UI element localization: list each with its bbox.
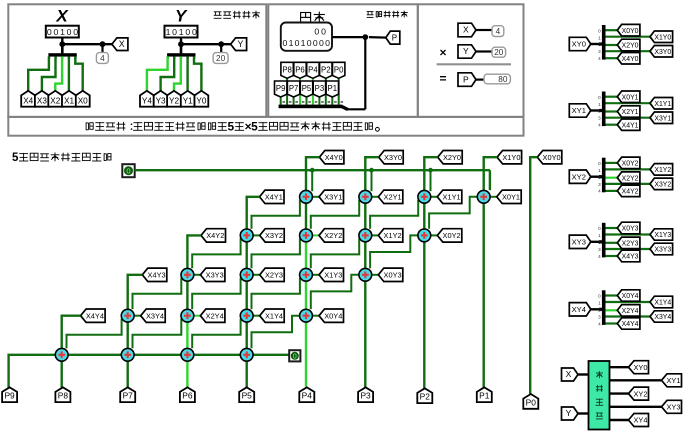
tunnel P1 bbox=[326, 81, 338, 97]
wire bbox=[253, 274, 260, 276]
wire bbox=[431, 234, 438, 236]
wire bbox=[186, 56, 188, 91]
svg-text:X0Y4: X0Y4 bbox=[324, 311, 342, 320]
wire bbox=[174, 56, 181, 91]
wire bbox=[610, 379, 662, 381]
tunnel P2 bbox=[320, 62, 332, 78]
svg-text:X2Y4: X2Y4 bbox=[206, 311, 224, 320]
wire bbox=[311, 200, 359, 229]
tunnel X (result panel) bbox=[458, 23, 476, 37]
wire bbox=[370, 200, 418, 229]
svg-text:P1: P1 bbox=[479, 391, 490, 401]
tunnel X3Y4 bbox=[141, 309, 166, 322]
tunnel X2Y1 bbox=[617, 106, 640, 117]
svg-text:XY3: XY3 bbox=[667, 403, 681, 412]
tunnel X3Y3 bbox=[650, 243, 673, 255]
tunnel X4Y0 bbox=[319, 151, 344, 164]
adder final-row cell (1-bit full adder) bbox=[55, 348, 68, 361]
svg-text:0: 0 bbox=[321, 27, 326, 37]
svg-text:0: 0 bbox=[73, 27, 78, 37]
wire bbox=[253, 354, 289, 356]
tunnel X1 bbox=[62, 91, 76, 107]
svg-text:0: 0 bbox=[313, 38, 318, 48]
wire bbox=[483, 203, 485, 387]
label 功能说明 (function description text) bbox=[86, 120, 379, 134]
svg-text:P0: P0 bbox=[334, 65, 344, 74]
tunnel X3Y0 bbox=[379, 151, 404, 164]
tunnel P (result panel) bbox=[458, 73, 476, 87]
svg-text:20: 20 bbox=[216, 54, 226, 63]
svg-text:X0Y1: X0Y1 bbox=[622, 94, 639, 101]
probe 4 (result X) bbox=[492, 26, 504, 37]
svg-text:4: 4 bbox=[100, 54, 105, 63]
tunnel X2 bbox=[48, 91, 62, 107]
splitter (XY1 5-bit fanout) bbox=[598, 92, 605, 128]
tunnel X1Y1 bbox=[437, 190, 462, 203]
wire bbox=[591, 109, 600, 111]
svg-text:X4Y4: X4Y4 bbox=[622, 321, 639, 328]
wire bbox=[245, 281, 247, 309]
tunnel X1Y3 bbox=[319, 268, 344, 281]
wire bbox=[606, 44, 618, 46]
svg-text:X: X bbox=[566, 369, 572, 379]
adder X2Y1 cell (1-bit full adder) bbox=[359, 190, 372, 203]
svg-text:X3Y1: X3Y1 bbox=[654, 115, 671, 122]
wire bbox=[305, 203, 307, 229]
wire bbox=[133, 278, 182, 309]
wire bbox=[181, 43, 231, 45]
panel product area frame bbox=[268, 4, 418, 117]
wire bbox=[429, 197, 477, 229]
wire bbox=[220, 44, 222, 52]
tunnel P (product out) bbox=[386, 31, 400, 44]
wire bbox=[126, 322, 128, 348]
svg-text:X1Y3: X1Y3 bbox=[654, 232, 671, 239]
wire bbox=[186, 281, 188, 309]
wire bbox=[591, 308, 600, 310]
svg-text:1: 1 bbox=[166, 27, 171, 37]
svg-text:X1Y2: X1Y2 bbox=[654, 167, 671, 174]
wire bbox=[606, 168, 651, 170]
svg-text:X2: X2 bbox=[50, 96, 60, 105]
svg-text:X4Y3: X4Y3 bbox=[148, 271, 166, 280]
constant 0 (carry-in top) bbox=[122, 164, 134, 177]
wire bbox=[245, 322, 247, 348]
svg-text:5: 5 bbox=[228, 120, 235, 134]
wire bbox=[75, 56, 82, 91]
wire bbox=[610, 366, 629, 368]
subcircuit 与门阵列 (AND-gate array) bbox=[589, 361, 610, 430]
tunnel XY2 (module input) bbox=[569, 170, 591, 183]
svg-text:X4Y1: X4Y1 bbox=[622, 122, 639, 129]
rule (fraction line) bbox=[437, 63, 511, 65]
wire bbox=[606, 110, 618, 112]
wire bbox=[606, 36, 651, 38]
tunnel X2Y0 bbox=[617, 39, 640, 51]
svg-text:Y3: Y3 bbox=[156, 96, 166, 105]
tunnel X1Y2 bbox=[650, 164, 673, 176]
svg-text:1: 1 bbox=[289, 38, 294, 48]
tunnel P6 bbox=[294, 62, 306, 78]
node (Y probe tap) bbox=[218, 41, 224, 47]
svg-text:0: 0 bbox=[319, 38, 324, 48]
svg-text:XY3: XY3 bbox=[572, 238, 586, 247]
splitter (XY4 5-bit fanout) bbox=[598, 290, 605, 326]
tunnel X3Y1 bbox=[650, 112, 673, 124]
svg-text:P6: P6 bbox=[295, 65, 305, 74]
tunnel XY3 (module input) bbox=[569, 235, 591, 248]
wire bbox=[62, 43, 112, 45]
panel input-pin area frame bbox=[8, 4, 266, 117]
tunnel Y (result panel) bbox=[458, 45, 476, 58]
wire bbox=[128, 275, 143, 309]
wire bbox=[348, 108, 366, 110]
adder X1Y1 cell (1-bit full adder) bbox=[418, 190, 431, 203]
tunnel XY1 (module input) bbox=[569, 104, 591, 117]
tunnel X0Y2 bbox=[437, 229, 462, 242]
wire bbox=[489, 170, 491, 190]
wire bbox=[606, 242, 618, 244]
tunnel X1Y3 bbox=[650, 229, 673, 240]
svg-text:0: 0 bbox=[126, 166, 130, 175]
tunnel X (AND array input) bbox=[562, 368, 579, 381]
wire bbox=[591, 43, 600, 45]
pin P4 (output) bbox=[299, 387, 314, 402]
wire bbox=[61, 361, 63, 387]
svg-text:XY0: XY0 bbox=[634, 363, 648, 372]
svg-text:2: 2 bbox=[598, 109, 601, 114]
wire bbox=[490, 196, 497, 198]
adder final-row cell (1-bit full adder) bbox=[181, 348, 194, 361]
tunnel X2Y3 bbox=[617, 237, 640, 249]
svg-text:X: X bbox=[463, 25, 469, 35]
svg-text:X: X bbox=[119, 39, 125, 49]
wire bbox=[101, 44, 103, 52]
svg-text:Y0: Y0 bbox=[196, 96, 206, 105]
svg-text:X0Y2: X0Y2 bbox=[443, 231, 461, 240]
svg-text:P9: P9 bbox=[4, 391, 15, 401]
wire bbox=[192, 278, 240, 309]
adder X3Y2 cell (1-bit full adder) bbox=[240, 229, 253, 242]
tunnel P0 bbox=[333, 62, 345, 78]
output display 乘积 (value 0010100000) bbox=[281, 23, 332, 51]
wire bbox=[484, 157, 497, 190]
adder X2Y4 cell (1-bit full adder) bbox=[181, 309, 194, 322]
pin P3 (output) bbox=[358, 387, 373, 402]
svg-text:X1Y1: X1Y1 bbox=[443, 193, 461, 202]
wire bbox=[9, 355, 56, 388]
pin P7 (output) bbox=[120, 387, 135, 402]
tunnel P7 bbox=[287, 81, 299, 97]
splitter (X, 5-bit fanout) bbox=[48, 44, 77, 58]
svg-text:4: 4 bbox=[598, 56, 601, 61]
svg-text:X1Y0: X1Y0 bbox=[502, 153, 520, 162]
tunnel X3Y2 bbox=[650, 178, 673, 190]
tunnel X3Y1 bbox=[319, 190, 344, 203]
wire bbox=[28, 56, 49, 91]
tunnel X0Y0 bbox=[617, 24, 640, 36]
adder X0Y4 cell (1-bit full adder) bbox=[300, 309, 313, 322]
tunnel X1Y0 bbox=[497, 151, 521, 164]
wire bbox=[312, 234, 319, 236]
svg-text:X4Y2: X4Y2 bbox=[206, 231, 224, 240]
wire bbox=[68, 354, 121, 356]
tunnel Y (AND array input) bbox=[562, 407, 579, 420]
svg-text:1: 1 bbox=[598, 102, 601, 107]
svg-text:4: 4 bbox=[598, 254, 601, 259]
svg-text:P7: P7 bbox=[123, 391, 134, 401]
wire bbox=[606, 315, 651, 317]
wire bbox=[306, 157, 319, 190]
wire bbox=[372, 274, 379, 276]
svg-text:P4: P4 bbox=[308, 65, 318, 74]
svg-text:X1Y2: X1Y2 bbox=[384, 231, 402, 240]
tunnel X2Y1 bbox=[378, 190, 403, 203]
svg-text:P8: P8 bbox=[282, 65, 292, 74]
wire bbox=[332, 36, 365, 38]
tunnel X0Y3 bbox=[617, 222, 640, 234]
tunnel XY1 (AND array output) bbox=[662, 374, 682, 387]
wire bbox=[311, 275, 359, 309]
tunnel X4Y1 bbox=[617, 119, 640, 130]
svg-text:X3Y3: X3Y3 bbox=[654, 247, 671, 254]
svg-text:Y: Y bbox=[463, 46, 469, 56]
tunnel P5 bbox=[300, 81, 312, 97]
tunnel X4Y4 bbox=[81, 309, 106, 322]
wire bbox=[606, 248, 651, 250]
tunnel X0Y4 bbox=[319, 309, 344, 322]
svg-text:4: 4 bbox=[598, 321, 601, 326]
wire bbox=[430, 170, 432, 191]
wire bbox=[606, 255, 618, 257]
wire bbox=[364, 37, 366, 109]
wire bbox=[606, 294, 618, 296]
svg-text:X0Y0: X0Y0 bbox=[543, 153, 561, 162]
svg-text:X3Y2: X3Y2 bbox=[265, 231, 283, 240]
wire bbox=[591, 241, 600, 243]
svg-text:X2Y2: X2Y2 bbox=[324, 231, 342, 240]
pin P6 (output) bbox=[180, 387, 195, 402]
tunnel XY4 (AND array output) bbox=[629, 414, 649, 427]
svg-text:P2: P2 bbox=[420, 392, 431, 402]
tunnel X1Y4 bbox=[260, 309, 285, 322]
pin P1 (output) bbox=[477, 387, 492, 402]
svg-text:P: P bbox=[392, 33, 397, 42]
adder X2Y2 cell (1-bit full adder) bbox=[300, 229, 313, 242]
wire bbox=[431, 196, 438, 198]
svg-text:0: 0 bbox=[598, 161, 601, 166]
wire bbox=[591, 175, 600, 177]
wire bbox=[606, 301, 651, 303]
svg-text:X0Y2: X0Y2 bbox=[622, 161, 639, 168]
wire bbox=[194, 315, 201, 317]
tunnel X1Y1 bbox=[650, 98, 673, 110]
tunnel P9 bbox=[275, 81, 287, 97]
svg-text:X3Y1: X3Y1 bbox=[324, 193, 342, 202]
svg-text:20: 20 bbox=[494, 48, 504, 57]
svg-text:0: 0 bbox=[192, 27, 197, 37]
adder final-row cell (1-bit full adder) bbox=[121, 348, 134, 361]
wire bbox=[364, 203, 366, 229]
wire bbox=[372, 234, 379, 236]
svg-text:5: 5 bbox=[12, 152, 19, 164]
wire bbox=[192, 319, 240, 349]
wire bbox=[578, 373, 589, 375]
tunnel X4Y3 bbox=[617, 250, 640, 262]
svg-text:2: 2 bbox=[598, 308, 601, 313]
svg-text:Y: Y bbox=[237, 39, 243, 49]
svg-text:P7: P7 bbox=[289, 84, 299, 93]
wire bbox=[606, 162, 618, 164]
wire bbox=[530, 157, 537, 394]
wire bbox=[578, 412, 589, 414]
wire (zero bus) bbox=[135, 169, 490, 171]
splitter (XY3 5-bit fanout) bbox=[598, 223, 605, 259]
wire bbox=[606, 57, 618, 59]
wire bbox=[312, 196, 319, 198]
adder X1Y2 cell (1-bit full adder) bbox=[359, 229, 372, 242]
svg-text:X4Y0: X4Y0 bbox=[622, 56, 639, 63]
pin P2 (output) bbox=[417, 388, 432, 403]
svg-text:0: 0 bbox=[293, 353, 297, 360]
svg-text:P3: P3 bbox=[315, 84, 325, 93]
wire bbox=[147, 56, 168, 91]
wire bbox=[194, 354, 240, 356]
svg-text:Y1: Y1 bbox=[183, 96, 193, 105]
wire bbox=[253, 315, 260, 317]
tunnel Y3 bbox=[154, 91, 168, 107]
wire bbox=[161, 56, 175, 91]
svg-text:0: 0 bbox=[67, 27, 72, 37]
tunnel X4 bbox=[21, 91, 35, 107]
wire bbox=[61, 38, 63, 45]
svg-text:0: 0 bbox=[47, 27, 52, 37]
pin P9 (output) bbox=[2, 387, 17, 402]
node (X bus junction) bbox=[59, 41, 65, 47]
tunnel X2Y4 bbox=[200, 309, 225, 322]
pin P0 (output) bbox=[523, 394, 538, 409]
svg-text:XY2: XY2 bbox=[634, 389, 648, 398]
tunnel X4Y0 bbox=[617, 53, 640, 65]
svg-text:X4Y2: X4Y2 bbox=[622, 189, 639, 196]
wire bbox=[245, 361, 247, 387]
wire bbox=[245, 242, 247, 268]
tunnel X2Y2 bbox=[319, 229, 344, 242]
svg-text:XY2: XY2 bbox=[572, 172, 586, 181]
svg-text:80: 80 bbox=[498, 75, 508, 84]
svg-text:Y: Y bbox=[175, 7, 188, 26]
svg-text:0: 0 bbox=[172, 27, 177, 37]
tunnel X4Y3 bbox=[142, 268, 167, 281]
probe 4 (X value) bbox=[96, 53, 108, 64]
adder X1Y4 cell (1-bit full adder) bbox=[240, 309, 253, 322]
svg-text:0: 0 bbox=[325, 38, 330, 48]
svg-text:P: P bbox=[463, 74, 469, 84]
svg-text:X2Y3: X2Y3 bbox=[265, 271, 283, 280]
svg-text:P0: P0 bbox=[526, 397, 537, 407]
svg-text:3: 3 bbox=[598, 182, 601, 187]
tunnel XY2 (AND array output) bbox=[629, 387, 649, 400]
wire bbox=[134, 354, 181, 356]
tunnel P3 bbox=[313, 81, 325, 97]
svg-text:0: 0 bbox=[598, 95, 601, 100]
tunnel Y4 bbox=[140, 91, 154, 107]
svg-text:X3Y0: X3Y0 bbox=[384, 153, 402, 162]
node (P junction) bbox=[362, 34, 368, 40]
svg-text:4: 4 bbox=[598, 123, 601, 128]
svg-text:4: 4 bbox=[598, 189, 601, 194]
probe 20 (Y value) bbox=[213, 53, 228, 64]
wire bbox=[370, 235, 418, 268]
wire bbox=[369, 36, 386, 39]
wire bbox=[67, 319, 122, 349]
tunnel X1Y4 bbox=[650, 296, 673, 308]
adder X0Y2 cell (1-bit full adder) bbox=[418, 229, 431, 242]
tunnel X4Y2 bbox=[201, 229, 226, 242]
wire bbox=[187, 235, 201, 268]
svg-text:3: 3 bbox=[598, 314, 601, 319]
wire bbox=[305, 322, 307, 386]
tunnel P8 bbox=[281, 62, 293, 78]
svg-text:X4Y0: X4Y0 bbox=[325, 153, 343, 162]
svg-text:2: 2 bbox=[598, 42, 601, 47]
svg-text:1: 1 bbox=[301, 38, 306, 48]
splitter (XY2 5-bit fanout) bbox=[598, 158, 605, 194]
wire bbox=[62, 316, 81, 349]
pin P8 (output) bbox=[55, 387, 70, 402]
panel result area frame bbox=[418, 4, 524, 117]
wire bbox=[606, 50, 651, 52]
svg-text:X2Y1: X2Y1 bbox=[384, 193, 402, 202]
wire bbox=[133, 319, 182, 349]
svg-text:P9: P9 bbox=[276, 84, 286, 93]
tunnel X bbox=[112, 38, 128, 51]
wire bbox=[606, 183, 651, 185]
tunnel Y bbox=[231, 38, 247, 51]
wire bbox=[606, 124, 618, 126]
wire bbox=[192, 238, 240, 268]
tunnel X0Y4 bbox=[617, 290, 640, 301]
tunnel X0 bbox=[76, 91, 90, 107]
wire bbox=[247, 197, 260, 229]
svg-text:1: 1 bbox=[598, 233, 601, 238]
svg-text:×: × bbox=[439, 46, 446, 60]
adder X3Y1 cell (1-bit full adder) bbox=[300, 190, 313, 203]
svg-text:1: 1 bbox=[598, 168, 601, 173]
tunnel X4Y1 bbox=[260, 190, 285, 203]
input pin X (5-bit, value 00100) bbox=[46, 26, 79, 38]
svg-text:X1Y0: X1Y0 bbox=[654, 34, 671, 41]
svg-text:X3: X3 bbox=[37, 96, 47, 105]
svg-text:X3Y0: X3Y0 bbox=[654, 49, 671, 56]
svg-text:Y4: Y4 bbox=[142, 96, 152, 105]
tunnel X2Y2 bbox=[617, 172, 640, 184]
wire bbox=[252, 278, 300, 309]
wire bbox=[372, 196, 379, 198]
wire bbox=[186, 322, 188, 348]
adder X3Y3 cell (1-bit full adder) bbox=[181, 268, 194, 281]
wire bbox=[252, 316, 300, 349]
svg-text:P2: P2 bbox=[321, 65, 331, 74]
tunnel X3Y4 bbox=[650, 311, 673, 322]
svg-text:X0Y0: X0Y0 bbox=[622, 28, 639, 35]
svg-text:P1: P1 bbox=[328, 84, 338, 93]
node (bus junction) bbox=[428, 168, 433, 173]
svg-text:P5: P5 bbox=[302, 84, 312, 93]
svg-text:3: 3 bbox=[598, 49, 601, 54]
wire bbox=[423, 203, 425, 229]
svg-text:1: 1 bbox=[179, 27, 184, 37]
